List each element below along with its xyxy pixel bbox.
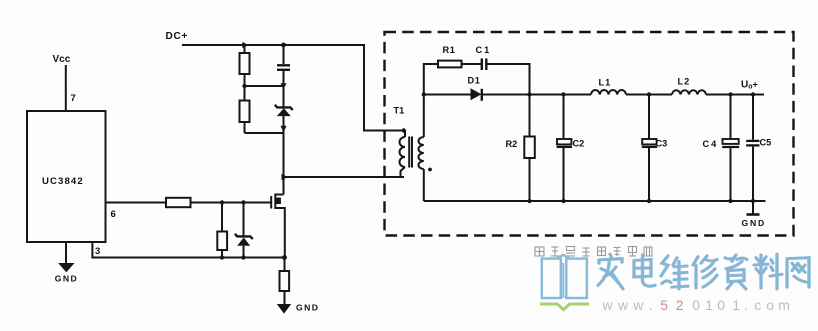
svg-text:GND: GND: [742, 218, 767, 228]
svg-text:R1: R1: [443, 45, 456, 55]
svg-text:w: w: [617, 297, 629, 313]
svg-text:1: 1: [705, 297, 713, 313]
svg-text:GND: GND: [55, 274, 78, 284]
svg-text:o: o: [766, 297, 774, 313]
svg-text:.: .: [649, 297, 653, 313]
svg-text:DC+: DC+: [166, 31, 189, 42]
svg-text:C5: C5: [760, 138, 772, 148]
svg-text:5: 5: [660, 297, 668, 313]
svg-text:UC3842: UC3842: [42, 176, 84, 187]
svg-text:6: 6: [111, 209, 116, 220]
svg-text:GND: GND: [296, 302, 319, 312]
svg-text:.: .: [744, 297, 748, 313]
svg-text:2: 2: [676, 297, 684, 313]
svg-text:7: 7: [71, 93, 76, 104]
svg-text:c: c: [754, 297, 761, 313]
svg-text:0: 0: [717, 297, 725, 313]
svg-text:3: 3: [95, 246, 100, 257]
svg-text:m: m: [778, 297, 790, 313]
svg-text:T1: T1: [394, 106, 405, 116]
svg-text:C1: C1: [476, 45, 492, 55]
svg-text:0: 0: [692, 297, 700, 313]
svg-text:C2: C2: [573, 138, 585, 148]
svg-text:L1: L1: [599, 78, 612, 88]
svg-text:R2: R2: [506, 139, 518, 149]
svg-text:C4: C4: [703, 139, 719, 149]
svg-text:w: w: [632, 297, 644, 313]
svg-text:Vcc: Vcc: [53, 54, 71, 65]
svg-text:w: w: [602, 297, 614, 313]
svg-text:1: 1: [732, 297, 740, 313]
svg-text:C3: C3: [656, 138, 668, 148]
svg-text:L2: L2: [678, 76, 691, 86]
svg-text:D1: D1: [468, 76, 481, 86]
